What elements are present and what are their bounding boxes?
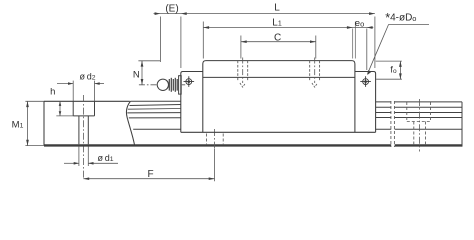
svg-text:C: C (274, 33, 281, 44)
dimension h bottom extension line (56, 115, 73, 117)
dimension N top extension line (138, 60, 160, 62)
rail top edge left of block (131, 100, 181, 102)
left end plate (181, 72, 203, 133)
dimension line N (141, 61, 143, 85)
M1 top arrow (26, 101, 29, 107)
dimension d2 left extension line (72, 81, 74, 101)
block mounting hole pair 1 hidden lines (238, 61, 248, 81)
rail bolt hole 3 hidden outline (counterbore + through hole) (407, 102, 431, 144)
block body side step line (203, 76, 355, 78)
rail right end edge (461, 102, 463, 147)
dimension line d2 right segment (95, 83, 105, 85)
rail groove line 1 right of block (376, 106, 462, 108)
F left arrow (83, 177, 89, 180)
dimension line (E) and L (154, 13, 375, 15)
dimension line d1 left segment (64, 162, 79, 164)
dimension d1 right extension line (87, 146, 89, 166)
dimension L left extension line (180, 17, 182, 69)
rail top edge right of block (376, 101, 462, 103)
rail bolt counterbore (d2 recess), depth h (73, 101, 94, 116)
dimension M1 top extension line (25, 100, 44, 102)
(E) left arrow (155, 12, 161, 15)
M1 bottom arrow (26, 140, 29, 146)
dimension F right extension line (214, 149, 216, 181)
d1 right arrow (88, 162, 93, 165)
grease nipple centerline (139, 84, 185, 86)
block body outline (203, 61, 355, 133)
rail groove line 3 right of block (376, 117, 462, 119)
rail bolt through hole (d1) (79, 116, 88, 144)
dimension C left extension line (240, 36, 242, 59)
f0 top arrow (399, 61, 402, 67)
h bottom arrow (59, 111, 62, 116)
dimension M1 bottom extension line (25, 145, 44, 147)
svg-text:F: F (147, 169, 153, 180)
rail bolt hole 1 centerline (83, 95, 85, 180)
block mounting hole pair 2 hidden lines (310, 61, 320, 81)
svg-text:eo: eo (355, 18, 364, 29)
rail sectioned view: left edge (43, 101, 45, 145)
rail break curve (126, 101, 134, 145)
block bottom edge (181, 131, 376, 133)
svg-text:L: L (274, 3, 280, 14)
N top arrow (141, 61, 144, 67)
C left arrow (241, 40, 247, 43)
rail groove line 2 right of block (376, 112, 462, 114)
F right arrow (209, 177, 215, 180)
grease nipple (157, 76, 181, 94)
dimension line C (241, 41, 316, 43)
block hole 1 centerline + drill tip (240, 58, 246, 88)
svg-text:*4-øDo: *4-øDo (385, 11, 416, 25)
C right arrow (310, 40, 316, 43)
d1 left arrow (74, 162, 79, 165)
rail bolt hole 2 centerline (214, 129, 216, 149)
svg-text:h: h (50, 87, 55, 98)
f0 bottom arrow (399, 73, 402, 79)
block hole 2 centerline + drill tip (312, 58, 318, 88)
N bottom arrow (141, 79, 144, 85)
rail bolt hole 2 hidden outline (under block) (207, 134, 224, 145)
L1 left arrow (203, 26, 209, 29)
dimension (E) extension line at nipple tip (159, 17, 161, 63)
rail groove line 3 left of block (127, 112, 181, 114)
d2 right arrow (95, 82, 100, 85)
dimension line h (59, 101, 61, 116)
left end plate screw (184, 76, 195, 87)
right end plate screw (360, 76, 371, 87)
dimension line L1 and e0 (203, 27, 373, 29)
rail groove line 1 left of block (130, 105, 181, 106)
dimension L1 left extension line (202, 22, 204, 59)
dimension e0 right extension line (366, 29, 368, 71)
right end plate (355, 72, 376, 133)
dimension f0 top extension line (376, 60, 402, 62)
dimension line F (83, 178, 214, 180)
e0 left arrow (347, 26, 353, 29)
svg-text:N: N (133, 69, 140, 80)
dimension C right extension line (315, 36, 317, 59)
rail lower edge line left of block (133, 128, 181, 130)
leader arrow (367, 70, 371, 75)
dimension e0 left extension line (352, 29, 354, 59)
leader line for 4-D0 holes (368, 25, 430, 74)
dimension d2 right extension line (94, 81, 96, 101)
h top arrow (59, 101, 62, 106)
dimension L right extension line (374, 17, 376, 69)
svg-text:(E): (E) (165, 3, 178, 14)
rail break symbol dashed pair (391, 101, 395, 147)
dimension L1 right extension line (354, 22, 356, 59)
dimension line d1 right segment (88, 162, 118, 164)
rail bottom edge (thick) (44, 144, 462, 146)
(E) right / L left arrow (181, 12, 187, 15)
dimension d1 left extension line (78, 146, 80, 166)
rail lower edge line right of block (376, 128, 462, 130)
dimension f0 bottom extension line (376, 78, 402, 80)
rail sectioned view: top edge (44, 100, 130, 102)
dimension line M1 (27, 101, 29, 145)
rail bolt hole 3 centerline (419, 99, 421, 152)
d2 left arrow (68, 82, 73, 85)
rail groove line 4 left of block (129, 117, 181, 119)
L right arrow (369, 12, 375, 15)
e0 right arrow (367, 26, 373, 29)
rail groove line 2 left of block (128, 108, 181, 111)
dimension line d2 left segment (57, 83, 73, 85)
arrowheads (26, 12, 402, 180)
dimension line f0 (399, 61, 401, 79)
